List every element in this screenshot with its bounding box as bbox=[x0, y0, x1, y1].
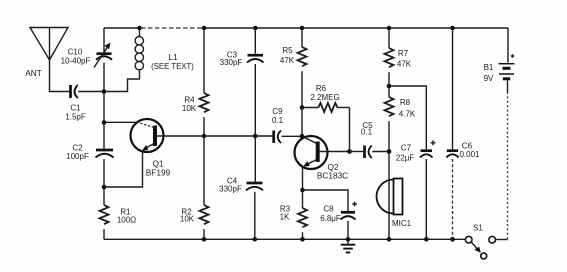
svg-text:22μF: 22μF bbox=[396, 154, 415, 163]
wire base node to R2 bbox=[203, 136, 205, 205]
svg-text:2.2MEG: 2.2MEG bbox=[310, 93, 339, 102]
wire R6 to Q2 base node bbox=[349, 108, 351, 152]
svg-text:ANT: ANT bbox=[25, 68, 42, 78]
svg-text:47K: 47K bbox=[280, 56, 295, 65]
svg-text:S1: S1 bbox=[473, 224, 483, 233]
svg-text:10K: 10K bbox=[182, 104, 197, 113]
capacitor C1 bbox=[65, 85, 86, 122]
wire C4 to ground rail bbox=[254, 192, 256, 240]
transistor Q1 bbox=[131, 119, 205, 178]
svg-text:C9: C9 bbox=[272, 107, 283, 116]
battery B1 bbox=[484, 54, 515, 83]
node C8 bottom on ground rail bbox=[346, 237, 351, 242]
switch S1 bbox=[465, 224, 495, 260]
wire node B to C4 bbox=[254, 136, 256, 182]
svg-text:9V: 9V bbox=[484, 74, 494, 83]
wire C10 to tank node A bbox=[103, 63, 105, 92]
wire supply rail corner to battery bbox=[507, 28, 509, 63]
svg-text:C7: C7 bbox=[401, 144, 412, 153]
svg-text:1K: 1K bbox=[280, 213, 290, 222]
wire C2 to emitter node bbox=[103, 159, 105, 187]
wire R3 to ground rail bbox=[302, 232, 304, 239]
svg-text:47K: 47K bbox=[397, 60, 412, 69]
node R8/C5/MIC1 output junction bbox=[387, 149, 392, 154]
node Q1 collector bbox=[102, 120, 107, 125]
node R6 left junction bbox=[300, 105, 305, 110]
svg-text:4.7K: 4.7K bbox=[399, 110, 416, 119]
node MIC1 bottom on ground rail bbox=[387, 237, 392, 242]
wire antenna lead to C1 node bbox=[50, 60, 70, 92]
node R4 top on supply rail bbox=[202, 26, 207, 31]
wire collector node down bbox=[301, 108, 303, 137]
svg-text:L1: L1 bbox=[168, 52, 178, 62]
node Q2 collector bbox=[300, 134, 305, 139]
svg-text:330pF: 330pF bbox=[219, 185, 242, 194]
capacitor C3 bbox=[220, 51, 264, 68]
svg-text:100pF: 100pF bbox=[66, 152, 89, 161]
wire signal line Q1 base to C3/C4 junction bbox=[204, 135, 255, 137]
wire R2 to ground rail bbox=[203, 229, 205, 239]
speaker MIC1 bbox=[377, 179, 412, 229]
node C3 top on supply rail bbox=[253, 26, 258, 31]
wire emitter node to R1 bbox=[103, 187, 105, 205]
wire R8 to output node bbox=[388, 121, 390, 151]
node A (tank bottom junction) bbox=[102, 89, 107, 94]
capacitor C2 bbox=[66, 144, 113, 162]
wire Q1 collector to node bbox=[104, 121, 137, 123]
svg-text:B1: B1 bbox=[484, 63, 494, 72]
capacitor C8 bbox=[320, 202, 357, 223]
node L1 top on supply rail bbox=[137, 26, 142, 31]
svg-text:C10: C10 bbox=[68, 48, 83, 57]
node C6 bottom / S1 junction bbox=[450, 237, 455, 242]
capacitor C9 bbox=[272, 107, 284, 143]
wire C7 branch bbox=[389, 86, 426, 149]
wire S1 to battery return bbox=[496, 239, 508, 241]
node C7 branch junction bbox=[387, 84, 392, 89]
svg-text:R7: R7 bbox=[398, 49, 409, 58]
svg-text:R5: R5 bbox=[282, 46, 293, 55]
wire R4 to base node bbox=[203, 117, 205, 136]
svg-text:C8: C8 bbox=[323, 205, 334, 214]
svg-text:R6: R6 bbox=[316, 84, 327, 93]
svg-text:BF199: BF199 bbox=[146, 168, 171, 178]
resistor R6 bbox=[302, 84, 350, 112]
resistor R5 bbox=[280, 46, 307, 66]
svg-text:R8: R8 bbox=[400, 98, 411, 107]
wire C8 to ground rail bbox=[347, 221, 349, 239]
resistor R8 bbox=[385, 97, 416, 119]
svg-text:10K: 10K bbox=[180, 215, 195, 224]
wire C6 to ground rail bbox=[452, 159, 454, 239]
wire output node through MIC1 to ground rail bbox=[388, 152, 390, 240]
wire R7 to C7 junction bbox=[388, 72, 390, 97]
resistor R4 bbox=[182, 93, 209, 113]
wire supply to C6 bbox=[452, 28, 454, 149]
wire C7 to ground rail bbox=[425, 159, 427, 239]
wire Q2 emitter lead bbox=[302, 167, 304, 191]
inductor L1 bbox=[135, 28, 194, 71]
node Q2 emitter junction bbox=[300, 188, 305, 193]
wire C1 to tank node bbox=[78, 91, 104, 93]
wire Q1 emitter lead bbox=[104, 151, 143, 188]
node Q2 base / C5 junction bbox=[347, 149, 352, 154]
svg-text:(SEE TEXT): (SEE TEXT) bbox=[151, 62, 194, 71]
svg-text:10-40pF: 10-40pF bbox=[61, 57, 91, 66]
svg-text:C1: C1 bbox=[70, 104, 81, 113]
wire supply to R5 bbox=[301, 28, 303, 47]
capacitor C7 bbox=[396, 140, 436, 162]
node R7 top on supply rail bbox=[387, 26, 392, 31]
node R5 top on supply rail bbox=[300, 26, 305, 31]
wire C3 to divider node B bbox=[254, 64, 256, 136]
wire tank node to collector node bbox=[103, 92, 105, 123]
wire bottom ground rail bbox=[104, 238, 465, 240]
antenna ANT bbox=[25, 28, 68, 79]
wire battery negative to S1 bbox=[507, 81, 509, 93]
wire base node to C5 bbox=[350, 151, 364, 153]
resistor R1 bbox=[100, 205, 137, 225]
wire C5 to R8/MIC1 node bbox=[372, 151, 389, 153]
node R2 bottom on ground rail bbox=[202, 237, 207, 242]
svg-text:6.8μF: 6.8μF bbox=[320, 214, 341, 223]
wire collector node down to C2 bbox=[103, 123, 105, 149]
capacitor C6 bbox=[446, 142, 480, 160]
node C4 bottom on ground rail bbox=[253, 237, 258, 242]
svg-text:1.5pF: 1.5pF bbox=[65, 113, 86, 122]
resistor R7 bbox=[385, 48, 412, 69]
capacitor C4 bbox=[219, 177, 263, 194]
node R3 bottom on ground rail bbox=[300, 237, 305, 242]
transistor Q2 bbox=[295, 136, 350, 181]
node Q1 emitter junction bbox=[102, 185, 107, 190]
wire supply to R4 bbox=[203, 28, 205, 93]
svg-text:0.001: 0.001 bbox=[459, 150, 480, 159]
resistor R3 bbox=[280, 205, 307, 228]
capacitor C5 bbox=[361, 121, 373, 158]
variable capacitor C10 bbox=[61, 28, 112, 68]
wire L1 return to node A bbox=[104, 69, 140, 91]
node C6 top on supply rail bbox=[450, 26, 455, 31]
wire emitter node to R3 bbox=[302, 190, 304, 208]
svg-text:330pF: 330pF bbox=[220, 58, 243, 67]
svg-text:0.1: 0.1 bbox=[272, 116, 284, 125]
resistor R2 bbox=[180, 205, 209, 224]
wire top supply rail bbox=[104, 27, 141, 29]
svg-text:0.1: 0.1 bbox=[361, 128, 373, 137]
wire R1 to ground rail bbox=[103, 229, 105, 239]
wire emitter node to C8 bbox=[303, 190, 349, 211]
svg-text:100Ω: 100Ω bbox=[117, 216, 136, 225]
node Q1 base / divider junction bbox=[202, 134, 207, 139]
node B (C3/C4 junction) bbox=[253, 134, 258, 139]
wire supply to C3 bbox=[254, 28, 256, 54]
svg-text:MIC1: MIC1 bbox=[392, 219, 412, 228]
wire node B to C9 bbox=[255, 135, 272, 137]
node C7 bottom on ground rail bbox=[424, 237, 429, 242]
svg-text:BC183C: BC183C bbox=[317, 171, 348, 181]
wire R5 to R6 junction bbox=[301, 71, 303, 107]
wire C9 to Q2 collector node bbox=[282, 135, 303, 137]
wire supply to R7 bbox=[388, 28, 390, 48]
ground bbox=[341, 239, 356, 252]
